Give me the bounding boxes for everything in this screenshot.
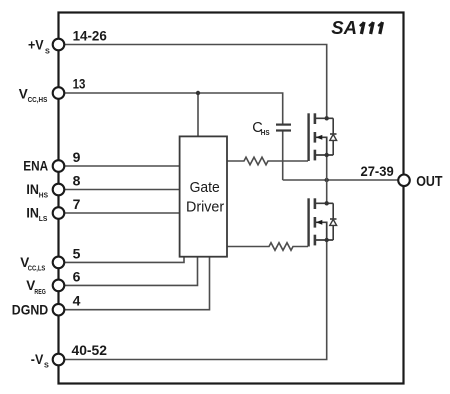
pin label ENA — [23, 159, 48, 174]
channel segment source — [314, 235, 317, 246]
wire half-bridge mid (HS source to LS drain) — [326, 155, 328, 203]
svg-text:HS: HS — [261, 128, 270, 137]
pin circle Vreg — [53, 280, 65, 292]
svg-text:+V: +V — [28, 37, 44, 52]
pin number 7 — [73, 196, 81, 212]
wire Vreg — [64, 257, 198, 286]
svg-text:DGND: DGND — [12, 302, 49, 317]
body diode D2 (low-side) — [330, 203, 337, 240]
svg-text:40-52: 40-52 — [72, 342, 108, 358]
pin number 4 — [73, 293, 81, 309]
transistor Q1 high-side MOSFET — [309, 113, 334, 161]
drain tab — [315, 202, 333, 204]
body arrow — [316, 220, 323, 225]
wire OUT horizontal — [283, 179, 398, 181]
wire ENA — [64, 165, 180, 167]
junction dot Q1 source — [325, 153, 329, 157]
pin circle -Vs — [53, 354, 65, 366]
junction dot Q2 source — [325, 238, 329, 242]
body contact line — [316, 222, 327, 240]
wire IN_HS — [64, 189, 180, 191]
pin numbers 40-52 — [72, 342, 108, 358]
pin label DGND — [12, 302, 49, 317]
pin circle IN_LS — [53, 207, 65, 219]
wire C_HS bottom to OUT node — [282, 131, 284, 180]
pin label IN_HS — [26, 182, 48, 199]
wire Vcc,ls — [64, 257, 184, 263]
junction dot Q1 drain — [325, 116, 329, 120]
svg-text:14-26: 14-26 — [73, 28, 107, 44]
resistor LS gate — [227, 243, 308, 251]
channel segment body — [314, 217, 317, 228]
pin number 5 — [73, 245, 81, 261]
channel segment body — [314, 132, 317, 143]
pin circle ENA — [53, 160, 65, 172]
pin number 9 — [73, 149, 81, 165]
pin circle Vcc,ls — [53, 257, 65, 269]
svg-text:13: 13 — [73, 75, 86, 91]
pin numbers 27-39 — [361, 163, 394, 179]
body contact line — [316, 137, 327, 155]
svg-text:27-39: 27-39 — [361, 163, 394, 179]
svg-text:CC,LS: CC,LS — [28, 264, 46, 273]
svg-text:9: 9 — [73, 149, 81, 165]
pin circle OUT — [398, 175, 410, 187]
gate bar — [307, 113, 309, 161]
channel segment drain — [314, 198, 317, 209]
svg-text:IN: IN — [26, 206, 39, 221]
svg-text:IN: IN — [26, 182, 39, 197]
pin circle +Vs — [53, 39, 65, 51]
wire +Vs horizontal — [64, 45, 327, 119]
junction dot Q2 drain — [325, 201, 329, 205]
pin label Vcc,hs — [19, 87, 48, 104]
svg-text:V: V — [19, 87, 28, 102]
svg-text:-V: -V — [31, 352, 44, 367]
wire -Vs to low-side source — [64, 240, 327, 360]
pin label Vreg — [26, 278, 46, 296]
svg-text:Driver: Driver — [186, 199, 224, 216]
svg-text:ENA: ENA — [23, 159, 48, 174]
pin label OUT — [416, 174, 442, 190]
svg-text:S: S — [44, 361, 49, 370]
transistor Q2 low-side MOSFET — [309, 198, 334, 246]
pin circle Vcc,hs — [53, 87, 65, 99]
body diode D1 (high-side) — [330, 118, 337, 155]
pin label -Vs — [31, 352, 49, 370]
junction dot OUT node — [325, 178, 329, 182]
svg-text:CC,HS: CC,HS — [28, 95, 48, 104]
pin circle IN_HS — [53, 184, 65, 196]
label Gate Driver — [186, 179, 224, 216]
svg-text:REG: REG — [34, 287, 46, 296]
svg-text:7: 7 — [73, 196, 81, 212]
pin label IN_LS — [26, 206, 47, 223]
wire Vcc,hs branch down to gate driver — [197, 93, 199, 136]
channel segment drain — [314, 113, 317, 124]
gate driver box — [180, 136, 227, 256]
source tab — [315, 239, 333, 241]
pin circle DGND — [53, 304, 65, 316]
pin number 8 — [73, 173, 81, 189]
wire Vcc,hs horizontal to C_HS — [64, 93, 283, 124]
pin label Vcc,ls — [20, 255, 45, 273]
svg-text:S: S — [45, 47, 50, 56]
channel segment source — [314, 150, 317, 161]
body arrow — [316, 135, 323, 140]
svg-text:8: 8 — [73, 173, 81, 189]
svg-text:SA: SA — [331, 18, 357, 38]
label C_HS — [252, 120, 269, 137]
resistor HS gate — [227, 157, 308, 165]
pin numbers 14-26 — [73, 28, 107, 44]
part label SA111 — [331, 18, 382, 38]
capacitor C_HS — [276, 125, 291, 131]
svg-text:5: 5 — [73, 245, 81, 261]
IC boundary box SA111 — [59, 13, 404, 384]
svg-text:Gate: Gate — [190, 179, 220, 196]
gate bar — [307, 198, 309, 246]
wire IN_LS — [64, 212, 180, 214]
pin label +Vs — [28, 37, 50, 55]
pin number 13 — [73, 75, 86, 91]
pin number 6 — [73, 268, 81, 284]
svg-text:LS: LS — [39, 214, 48, 223]
drain tab — [315, 117, 333, 119]
svg-text:OUT: OUT — [416, 174, 442, 190]
svg-text:4: 4 — [73, 293, 81, 309]
junction dot Vcc,hs branch — [196, 91, 200, 95]
source tab — [315, 154, 333, 156]
svg-text:HS: HS — [39, 191, 48, 200]
svg-text:6: 6 — [73, 268, 81, 284]
wire DGND — [64, 257, 210, 310]
